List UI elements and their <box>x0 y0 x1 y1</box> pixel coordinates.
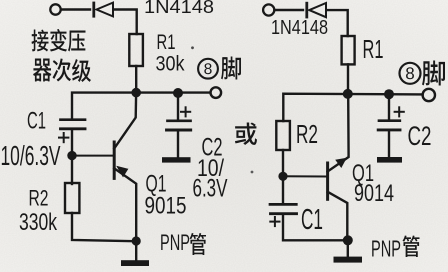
note 器 (line 2) <box>33 59 51 82</box>
terminal J4 pin 8 output (right) <box>423 89 435 101</box>
note 变 (line 1) <box>50 29 67 52</box>
svg-text:C1: C1 <box>27 108 46 135</box>
diode D1 1N4148 (left) <box>94 3 113 17</box>
alternative note 或 (or) <box>235 122 257 145</box>
wire R2 bottom to ground rail <box>72 213 136 241</box>
wire positive rail (right) <box>283 94 422 121</box>
node B: C1/R2/base junction <box>67 151 76 160</box>
Q1 collector lead <box>114 95 136 149</box>
svg-text:R2: R2 <box>29 186 49 211</box>
Q1 (right) emitter lead up <box>328 96 349 172</box>
resistor R2 330k (left) <box>65 183 79 213</box>
transistor Q1 9014 base bar <box>326 163 329 199</box>
Q1 emitter lead <box>114 168 136 238</box>
wire C1 to node B <box>71 130 73 154</box>
svg-text:1N4148: 1N4148 <box>144 0 214 17</box>
ground bar (left circuit) <box>121 260 149 266</box>
wire collector node to ground (right) <box>347 240 349 256</box>
wire positive rail (left) <box>72 93 210 119</box>
diode D2 1N4148 (right) <box>307 3 326 17</box>
wire J3 to diode D2 <box>275 9 304 11</box>
wire C2 to ground bar (right) <box>388 130 390 157</box>
ink speck near 30k <box>191 46 194 49</box>
svg-text:C2: C2 <box>408 121 432 151</box>
char 脚 pin label (right) <box>422 61 445 86</box>
ground bar under C2 (left) <box>162 157 191 162</box>
svg-text:9014: 9014 <box>354 180 394 207</box>
C1 polarity plus sign (right) <box>270 217 279 226</box>
resistor R2 (right) <box>276 121 290 150</box>
terminal J1 (input, left circuit) <box>50 4 60 14</box>
svg-text:10/6.3V: 10/6.3V <box>1 140 61 171</box>
capacitor C2 (right) top wire <box>388 94 390 120</box>
wire node C to C1 (right) <box>282 176 284 203</box>
ink speck between circuits <box>251 171 254 174</box>
C2 polarity plus sign (right) <box>395 107 404 116</box>
char 管 of PNP管 (left) <box>190 233 206 255</box>
svg-text:330k: 330k <box>19 209 58 236</box>
node: C1/collector/ground junction (right) <box>343 235 353 245</box>
transistor Q1 9015 base bar <box>113 142 116 178</box>
wire R2 bottom to node C <box>282 150 284 173</box>
svg-text:9015: 9015 <box>145 193 187 220</box>
node: rail/C2 junction (left) <box>173 88 183 98</box>
wire D1 to R1 top <box>114 10 137 35</box>
char 管 of PNP管 (right) <box>403 236 420 257</box>
resistor R1 30k (left) <box>129 34 143 66</box>
wire R1 bottom to rail node (right) <box>347 64 349 93</box>
wire emitter node to ground (left) <box>135 241 137 261</box>
wire node B to base of Q1 <box>72 155 113 157</box>
resistor R1 (right) <box>342 36 355 64</box>
node A: R1/rail/collector junction <box>131 88 141 98</box>
svg-text:R1: R1 <box>363 34 384 64</box>
pin 8 symbol (left): circled 8 <box>198 59 218 79</box>
ground bar (right circuit) <box>334 257 363 263</box>
svg-text:R2: R2 <box>296 119 318 149</box>
svg-text:PNP: PNP <box>371 236 401 262</box>
note 压 (line 1) <box>68 30 86 51</box>
wire J1 to diode D1 <box>61 8 90 10</box>
terminal J2 pin 8 output (left) <box>211 87 222 98</box>
terminal J3 (input, right circuit) <box>263 4 274 15</box>
capacitor C2 (left) top wire <box>177 93 179 120</box>
svg-text:C1: C1 <box>301 204 323 236</box>
wire R1 bottom to node A <box>135 66 137 93</box>
note 级 (line 2) <box>72 59 91 82</box>
C2 polarity plus sign (left) <box>181 107 190 116</box>
ground bar under C2 (right) <box>377 157 402 163</box>
svg-text:30k: 30k <box>156 52 185 76</box>
pin 8 symbol (right): circled 8 <box>400 63 421 84</box>
wire node B to R2 <box>71 156 73 184</box>
node: rail/R1/emitter junction (right) <box>343 89 353 99</box>
node: rail/C2 junction (right) <box>384 89 394 99</box>
Q1 PNP emitter arrow <box>116 166 128 178</box>
C1 polarity plus sign <box>59 133 68 142</box>
svg-text:PNP: PNP <box>160 230 190 255</box>
C2 (left) plates <box>167 121 191 130</box>
svg-text:6.3V: 6.3V <box>193 174 228 202</box>
capacitor C1 (left) plates <box>61 120 86 129</box>
note 次 (line 2) <box>53 58 72 81</box>
node: emitter/ground junction (left) <box>132 236 141 245</box>
wire node C to base of Q1 (right) <box>283 175 326 177</box>
note 接 (connect-to-transformer line 1) <box>32 29 49 51</box>
svg-text:1N4148: 1N4148 <box>271 17 328 39</box>
Q1 (right) collector lead down <box>328 192 348 238</box>
wire D2 to R1 top (right) <box>327 10 348 36</box>
wire C2 to ground bar (left) <box>177 131 179 158</box>
Q1 (right) NPN emitter arrow <box>335 158 347 168</box>
char 脚 pin label (left) <box>221 57 241 80</box>
capacitor C1 (right) plates <box>270 204 297 213</box>
wire C1 to ground rail (right) <box>283 214 347 240</box>
C2 (right) plates <box>378 121 400 130</box>
node C: R2/C1/base junction (right) <box>278 172 287 181</box>
